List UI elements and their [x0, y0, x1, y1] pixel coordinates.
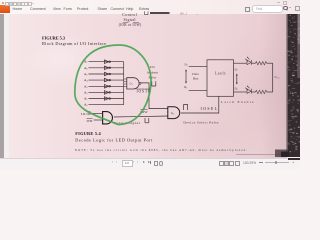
svg-text:D7: D7: [235, 67, 238, 72]
node A2 label: [84, 90, 87, 95]
cutoff faint label right 1: [180, 13, 187, 16]
svg-text:FIGURE 5.4: FIGURE 5.4: [75, 131, 101, 136]
inverter on A2: [104, 91, 110, 95]
wire LED-resistor bottom: [252, 91, 256, 93]
wire A1: [89, 98, 124, 100]
label D0 right: [235, 87, 238, 92]
svg-text:A3: A3: [84, 84, 87, 89]
node A1 label: [84, 97, 87, 102]
node A7 label: [84, 60, 87, 64]
wire IO/M input: [91, 113, 103, 115]
AND gate control: [103, 112, 113, 124]
pulse symbol control: [145, 118, 149, 123]
status right controls: [219, 161, 224, 166]
wire WR input: [94, 119, 103, 121]
svg-text:A6: A6: [84, 66, 87, 71]
label IOW bar: [140, 110, 148, 115]
gate input stubs: [124, 79, 127, 87]
svg-text:Pulse: Pulse: [148, 75, 156, 79]
svg-text:Latch: Latch: [215, 72, 226, 76]
data range arrow right: [236, 74, 238, 85]
NAND gate G1: [127, 78, 141, 89]
label IOSTB with overbar: [137, 89, 152, 94]
svg-text:Latch Enable: Latch Enable: [221, 100, 254, 104]
NAND gate G2: [168, 107, 180, 119]
wire resistor-bus bottom: [267, 91, 273, 93]
wire resistor-bus top: [267, 62, 273, 64]
inverter on A1: [104, 97, 110, 101]
label WR bar: [87, 119, 94, 123]
label Latch Enable: [221, 100, 254, 104]
label IO/M bar: [81, 112, 91, 116]
cutoff pulse symbol top: [144, 11, 148, 14]
svg-text:VCC: VCC: [274, 75, 280, 80]
dark band corner over status bar: [288, 158, 300, 161]
bus collector wire: [123, 62, 125, 105]
svg-text:NOTE: To use the circuit with: NOTE: To use the circuit with the 8085, …: [75, 148, 247, 153]
label Data Bus: [192, 72, 199, 80]
svg-text:G1: G1: [130, 82, 133, 87]
magnifier icon: [283, 6, 288, 11]
node A6 label: [84, 66, 87, 71]
svg-text:A5: A5: [84, 72, 87, 77]
inverter on A5: [104, 72, 110, 76]
Vcc bus wire: [272, 63, 274, 92]
svg-text:(80...): (80...): [180, 13, 187, 16]
status center controls: [112, 161, 115, 164]
svg-text:FIGURE 5.3: FIGURE 5.3: [42, 36, 66, 41]
svg-text:Block Diagram of I/O Interface: Block Diagram of I/O Interface: [42, 41, 106, 46]
svg-text:IOSEL: IOSEL: [201, 107, 218, 111]
page background: [9, 14, 287, 158]
menu tabs: [0, 7, 300, 14]
pane gutter: [4, 14, 9, 158]
svg-text:WR: WR: [87, 119, 94, 123]
svg-text:D0: D0: [235, 87, 238, 92]
wire G1 output to G2: [141, 83, 168, 109]
wire D0 input: [189, 90, 207, 92]
label D7 right: [235, 67, 238, 72]
wire LED-resistor top: [252, 62, 256, 64]
label Device Select Pulse: [183, 120, 218, 124]
resistor R7: [256, 62, 267, 65]
label Vcc: [274, 75, 280, 80]
label IOSEL: [201, 107, 218, 111]
svg-text:....: ....: [196, 12, 199, 15]
svg-text:Decode Logic for LED Output Po: Decode Logic for LED Output Port: [75, 138, 153, 143]
inverter on A4: [104, 78, 110, 82]
annotation green ellipse: [75, 45, 151, 125]
wire A0: [89, 104, 124, 106]
svg-text:Bus: Bus: [193, 77, 199, 81]
svg-text:Device Select Pulse: Device Select Pulse: [183, 120, 218, 124]
svg-text:Address: Address: [147, 71, 159, 75]
caption FIGURE 5.3: [42, 36, 66, 41]
orange app button: [0, 5, 10, 12]
label Control Signal (IOR or IOW): [119, 12, 142, 27]
cutoff faint label right 2: [196, 12, 199, 15]
wire control signal: [114, 116, 168, 117]
wire A6: [89, 67, 124, 69]
pulse symbol IOSEL: [184, 104, 188, 110]
wire latch out top: [234, 62, 247, 64]
wire A2: [89, 91, 124, 93]
find icon left of search: [245, 7, 250, 12]
svg-text:A1: A1: [84, 97, 87, 102]
svg-text:I/O: I/O: [150, 65, 155, 69]
svg-text:A2: A2: [84, 90, 87, 95]
wire G2 output to latch enable: [181, 97, 219, 114]
svg-text:A0: A0: [84, 103, 87, 108]
svg-text:Signal: Signal: [124, 17, 137, 22]
wire A7: [89, 61, 124, 63]
svg-text:(IOR or IOW): (IOR or IOW): [119, 23, 142, 27]
page texture blotches: [9, 14, 287, 158]
resistor R0: [256, 90, 267, 93]
window control dashes top right: [277, 1, 280, 4]
toolbar background: [0, 0, 300, 14]
wire D7 input: [189, 66, 207, 68]
nav pane gray strip: [0, 14, 4, 158]
node A5 label: [84, 72, 87, 77]
label D0 left: [184, 85, 187, 90]
label D7 left: [185, 62, 188, 67]
caption NOTE line: [75, 148, 247, 153]
svg-text:A4: A4: [84, 78, 87, 83]
node A4 label: [84, 78, 87, 83]
caption Decode Logic for LED Output Port: [75, 138, 153, 143]
search box: [252, 5, 283, 13]
inverter on A7: [104, 60, 110, 64]
inverter on A3: [104, 85, 110, 89]
label Control Signal: [114, 121, 140, 125]
wire A4: [89, 79, 124, 81]
cutoff thick wire top: [150, 12, 170, 14]
svg-text:IOSTB: IOSTB: [137, 90, 152, 94]
data range arrow left: [185, 69, 187, 83]
LED D0: [246, 85, 252, 93]
wire A3: [89, 85, 124, 87]
book edge dark band: [275, 14, 301, 157]
caption Block Diagram of I/O Interface: [42, 41, 106, 46]
caption FIGURE 5.4: [75, 131, 101, 136]
wire A5: [89, 73, 124, 75]
page bottom edge shadow: [236, 153, 287, 155]
LED D7: [246, 57, 252, 65]
latch U1 box: [207, 60, 234, 97]
inverter on A6: [104, 66, 110, 70]
svg-text:D0: D0: [184, 85, 187, 90]
label I/O Address Pulse: [147, 65, 159, 79]
pulse symbol IOSTB: [152, 81, 156, 86]
node A0 label: [84, 103, 87, 108]
status bar: [0, 158, 300, 170]
node A3 label: [84, 84, 87, 89]
wire latch out bottom: [234, 91, 247, 93]
svg-text:G2: G2: [171, 111, 174, 116]
quick access icons: [2, 2, 4, 4]
svg-text:D7: D7: [185, 62, 188, 67]
